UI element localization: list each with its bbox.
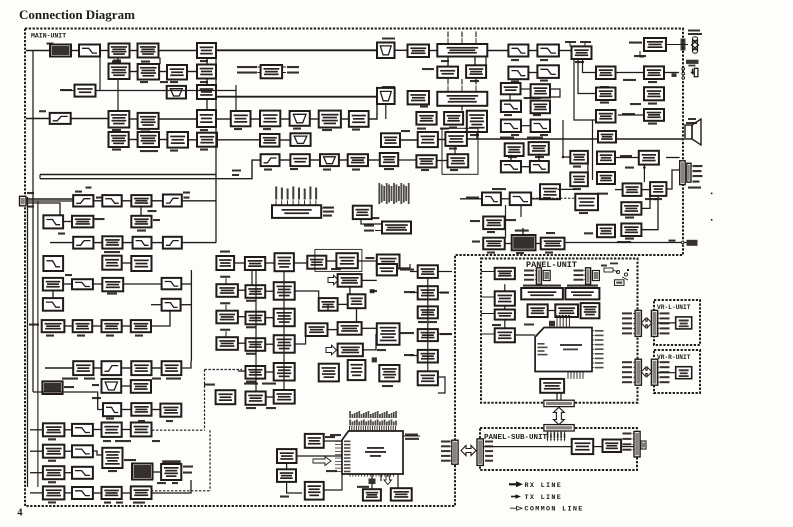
block DOUBLER	[348, 294, 366, 308]
wire	[410, 355, 418, 357]
block TX-A MIXER IF IX wide	[437, 92, 487, 106]
pin header CN IO pins	[276, 200, 316, 205]
label B TUNE CTRL	[237, 66, 257, 68]
wire	[535, 279, 536, 281]
wire	[99, 51, 101, 91]
caption thermal	[162, 460, 181, 463]
block ANT SW UNIT DRIVE	[102, 423, 122, 437]
label LPO	[172, 482, 178, 484]
connector SUB CN right	[634, 431, 640, 457]
wire	[461, 106, 463, 111]
block LPF 4A	[537, 65, 559, 78]
label pin text	[200, 129, 208, 131]
label TX PWR CTRL	[62, 378, 78, 380]
label TX PWR CTRL	[124, 459, 136, 461]
label pin text	[648, 123, 657, 125]
label pin text	[352, 169, 360, 171]
block RESET IC	[277, 449, 297, 463]
label EXT-SPXL	[325, 436, 335, 438]
wire vertical right of modem	[190, 270, 192, 361]
block CLIP AMP 1	[570, 151, 588, 164]
block LPF 6A	[482, 193, 501, 206]
wire	[369, 104, 377, 119]
wire	[235, 91, 237, 112]
wire	[358, 260, 377, 262]
block ATT I	[621, 224, 641, 237]
wire panel in 2	[481, 296, 495, 298]
label D-XXXXXX	[326, 470, 337, 472]
unit border MAIN-UNIT	[25, 29, 683, 507]
block NOISE SUPPRESS BUF	[261, 65, 283, 78]
wire	[64, 492, 72, 494]
enclosure clock generator	[315, 249, 362, 271]
unit border VR-R-UNIT	[654, 350, 700, 393]
label FAN	[688, 30, 700, 32]
enclosure AF block	[442, 128, 478, 174]
wire	[658, 372, 676, 374]
label xxx	[686, 122, 697, 124]
wire	[93, 429, 102, 431]
label pin	[441, 455, 451, 457]
label 455A	[440, 128, 449, 130]
wire	[559, 50, 572, 52]
arrow down mpu	[384, 476, 392, 485]
label VCO0	[220, 276, 230, 278]
wire	[234, 262, 245, 264]
block BPF F	[102, 379, 122, 393]
label pin text	[449, 127, 457, 129]
arrow to PLL B	[328, 275, 339, 284]
connector ANT	[20, 196, 27, 206]
label PRETOLINE	[688, 187, 701, 189]
block LPF F	[43, 256, 63, 271]
label pin text	[487, 231, 495, 233]
label Txxx	[77, 335, 85, 337]
label pin text	[112, 129, 121, 131]
block TRANSFER BUFF	[575, 194, 598, 210]
wire	[615, 189, 623, 191]
wire	[251, 118, 261, 120]
label pin text	[573, 166, 581, 168]
block TO-DET 3	[596, 110, 616, 123]
label pin text	[421, 169, 429, 171]
label CL	[472, 241, 480, 243]
wire	[328, 329, 338, 331]
block IF AMP A	[138, 44, 159, 58]
wire	[39, 175, 41, 179]
label Txxx	[232, 170, 241, 172]
wire	[93, 200, 102, 202]
wire	[206, 99, 208, 110]
wire	[30, 472, 43, 474]
wire	[474, 57, 476, 65]
wire	[64, 450, 72, 452]
wire	[129, 139, 138, 141]
block XTAL OSC MPU	[277, 469, 296, 482]
block DET A	[167, 65, 187, 80]
label pin	[622, 317, 632, 319]
block BUF M	[598, 131, 616, 143]
label xxx	[584, 232, 593, 234]
label pin text	[625, 238, 634, 240]
block BUF J	[597, 152, 615, 165]
connector SUB CN right b	[641, 441, 646, 449]
wire	[633, 361, 635, 363]
connector bar CN bottom	[544, 425, 574, 431]
wire	[140, 207, 142, 216]
wire	[341, 118, 349, 120]
block SUB REGULATOR	[603, 440, 622, 453]
wire	[658, 317, 659, 319]
block RELAY 3	[43, 466, 65, 479]
wire	[310, 159, 320, 161]
label LL PW	[422, 68, 434, 70]
wire	[531, 195, 540, 199]
label VCXTAL-B	[244, 383, 258, 385]
label pin	[660, 317, 670, 319]
label pin text	[170, 150, 178, 152]
wire	[505, 243, 512, 245]
wire	[225, 278, 227, 284]
wire	[371, 474, 373, 479]
block ACC AMP SENSITIVITY	[418, 329, 438, 341]
label LO-O/S	[323, 215, 332, 217]
label LXX	[153, 219, 160, 221]
arrow VR-L link	[641, 318, 651, 328]
wire	[658, 361, 659, 363]
wire panel in 3	[481, 313, 495, 315]
connector AT OUT	[680, 161, 686, 185]
block APC DETECTOR	[42, 381, 62, 394]
label EXT-SPKT	[622, 113, 635, 115]
wire	[403, 435, 420, 437]
legend COMMON LINE arrow	[510, 506, 522, 510]
wire	[153, 471, 161, 473]
wire	[30, 492, 43, 494]
block VCO-B RX OSC	[246, 312, 266, 325]
wire	[265, 262, 274, 264]
label VOX-A	[404, 291, 415, 293]
block LPF 3B	[501, 101, 521, 112]
icon mic sw	[601, 263, 629, 281]
wire	[327, 304, 329, 310]
label xxx/TONE-B	[524, 97, 541, 99]
block DE DIV	[245, 257, 265, 270]
wire	[152, 409, 161, 411]
label +FXXXL	[688, 33, 702, 35]
wire	[63, 283, 72, 285]
wire panel in 4	[481, 333, 495, 335]
wire	[206, 58, 208, 65]
label pin	[441, 450, 451, 452]
label AT-XXXX	[382, 38, 395, 40]
label pin	[485, 445, 493, 447]
block DET B	[231, 111, 251, 126]
label YGSV-A	[266, 407, 276, 409]
label xx 13.8V	[92, 397, 101, 399]
wire	[621, 446, 634, 448]
label pin	[660, 322, 670, 324]
wire	[265, 371, 274, 373]
wire	[362, 279, 377, 281]
wire	[666, 157, 680, 159]
wire	[188, 139, 197, 141]
wire	[633, 376, 635, 378]
wire	[438, 292, 448, 294]
block ATTEN G	[650, 182, 666, 196]
wire	[520, 205, 522, 217]
wire	[265, 343, 274, 345]
block FAN CONTROL	[644, 38, 666, 51]
block DIGITAL GATE TRANSFER	[495, 310, 515, 320]
label VCO1	[220, 302, 230, 304]
label pin text	[441, 60, 449, 62]
arrow VR-R link	[641, 367, 651, 377]
unit border PANEL-UNIT	[481, 259, 638, 403]
wire	[476, 132, 478, 139]
label pin	[485, 460, 493, 462]
block ATT F	[623, 183, 642, 196]
pin labels MPU interior left	[344, 441, 351, 443]
label pin text	[543, 197, 551, 199]
wire	[217, 139, 240, 141]
block LPF C	[102, 195, 121, 206]
wire	[437, 160, 448, 162]
wire	[633, 317, 635, 319]
wire	[641, 196, 650, 208]
block LPF B2	[537, 45, 559, 57]
wire	[584, 274, 585, 276]
block VCO-B TX LOOP	[274, 282, 295, 300]
wire dashed TX ctrl 1	[152, 429, 205, 431]
block HPF A	[50, 113, 71, 124]
wire	[287, 482, 302, 493]
wire	[251, 270, 253, 286]
block LPF B1	[508, 45, 528, 57]
wire	[151, 311, 170, 326]
wire	[538, 155, 540, 161]
block MIX D	[197, 110, 216, 127]
block BUF L	[597, 225, 615, 238]
wire	[123, 242, 133, 244]
pin header sub unit top pins	[548, 431, 565, 440]
label pin text	[540, 80, 548, 82]
wire long bus TX2	[40, 160, 261, 179]
wire	[368, 159, 380, 161]
block SUB RECEIVER RF AMP	[109, 111, 130, 128]
block LPF D	[43, 215, 63, 228]
block CLIP AMP 2	[570, 172, 588, 186]
wire	[633, 327, 635, 329]
label TUNE-B	[287, 66, 299, 68]
block AF AMP B	[290, 154, 309, 166]
wire panel in 1	[481, 271, 495, 273]
label pin text	[545, 252, 553, 254]
block VCO-B TX BUF	[216, 284, 238, 297]
wire long bus TX1	[40, 174, 216, 176]
connector CN P1b	[543, 271, 550, 281]
wire	[410, 292, 418, 294]
marker 2	[372, 357, 377, 362]
block REF DIV	[307, 256, 326, 269]
wire	[658, 366, 659, 368]
block LPF I	[43, 298, 63, 311]
junction dot 1	[562, 156, 565, 159]
label Tx	[183, 192, 190, 194]
wire	[640, 51, 644, 57]
wire	[93, 367, 101, 369]
label Txx xV	[546, 232, 555, 234]
block POWER MOSFET	[131, 361, 151, 375]
wire	[122, 325, 131, 327]
label PXXXX	[693, 170, 702, 172]
wire	[265, 290, 274, 292]
label RX SQL	[620, 155, 632, 157]
label pin	[441, 460, 451, 462]
block LOOP FILTER A	[275, 253, 294, 271]
block PANEL SW BUF	[495, 328, 515, 342]
label pin text	[170, 81, 178, 83]
wire	[93, 492, 102, 494]
label pin	[660, 376, 670, 378]
wire	[521, 166, 530, 168]
wire att to mix	[96, 85, 237, 91]
wire	[521, 88, 531, 90]
label pin text	[200, 149, 208, 151]
label Txx	[232, 174, 239, 176]
label TXB	[116, 502, 123, 504]
label d-SET	[645, 198, 657, 200]
block PREAMP BFR	[483, 217, 505, 230]
block WAVE REGULATOR	[363, 489, 381, 500]
wire	[280, 118, 289, 120]
svg-text:VR-R-UNIT: VR-R-UNIT	[657, 354, 691, 361]
wire	[356, 308, 358, 322]
block AMP B	[290, 111, 310, 126]
wire	[438, 271, 452, 273]
label RX	[27, 206, 34, 208]
icon ext sp jack	[682, 60, 699, 79]
label pin text	[141, 131, 150, 133]
label VCO-x	[246, 353, 256, 355]
wire	[375, 230, 382, 232]
block PANEL REGULATOR A	[495, 268, 515, 279]
wire vol drop 3	[583, 59, 597, 73]
label TX PWR CTRL	[133, 502, 145, 504]
wire	[122, 262, 132, 264]
wire	[152, 480, 192, 493]
wire	[117, 80, 119, 111]
block SQL B	[416, 155, 436, 167]
wire vol drop 2	[578, 59, 596, 94]
label pin text	[234, 128, 242, 130]
wire	[633, 449, 635, 451]
label pin text	[540, 59, 548, 61]
label pin text	[511, 59, 519, 61]
pin labels sub top	[547, 432, 549, 438]
label TUNE-A	[287, 72, 299, 74]
wire	[187, 71, 197, 73]
label Txx	[184, 197, 190, 199]
wire	[92, 325, 101, 327]
wire	[447, 57, 449, 67]
label A DRZ-IN	[634, 55, 646, 57]
block IF FILTER B	[138, 113, 159, 129]
block VCO SW	[274, 390, 295, 404]
label pin text	[470, 80, 479, 82]
block RELAY 4	[43, 486, 65, 499]
block VCO-B TX OSC	[246, 285, 266, 298]
wire to speaker	[467, 138, 683, 140]
block TO-DET 1	[596, 67, 616, 80]
label pin text	[470, 134, 479, 136]
wire	[282, 72, 286, 74]
label pin	[623, 449, 632, 451]
label Txx	[39, 110, 46, 112]
wire	[658, 322, 676, 324]
label MIC-A	[404, 354, 414, 356]
label SP	[688, 118, 696, 120]
label TXXF	[108, 470, 117, 472]
label 13.8V	[152, 378, 161, 380]
label Txxx	[166, 420, 173, 422]
wire	[398, 159, 416, 161]
label pin	[622, 376, 632, 378]
wire	[33, 391, 98, 394]
wire	[641, 196, 658, 230]
label BACKLIGHT	[405, 438, 419, 440]
wire	[238, 342, 246, 344]
label xx.xV	[280, 496, 289, 498]
block PANEL AMP	[495, 291, 515, 305]
label DATA-O/S	[323, 211, 334, 213]
block STEREO MOD	[540, 184, 560, 199]
wire	[321, 207, 333, 209]
block EXT AT AMP	[644, 66, 664, 79]
wire	[30, 450, 43, 452]
block BPF D	[163, 237, 182, 249]
block LPF E	[133, 237, 152, 249]
svg-text:MAIN-UNIT: MAIN-UNIT	[31, 33, 66, 40]
wire vertical trunk A	[215, 50, 217, 242]
marker 1	[370, 289, 375, 293]
wire	[633, 438, 635, 440]
label T2x	[48, 481, 56, 483]
label pin	[441, 441, 451, 443]
block FM DET	[260, 111, 280, 127]
wire	[182, 200, 216, 202]
label MCU-XX	[95, 218, 105, 220]
label ANT	[27, 192, 34, 194]
label AXX	[693, 181, 700, 183]
wire	[363, 334, 376, 350]
block AMP D	[320, 154, 339, 166]
label pin	[622, 361, 632, 363]
block ALC AMP SENSITIVITY	[418, 286, 438, 299]
block LPF L4	[72, 487, 93, 499]
block LCD DRIVER LED	[555, 304, 578, 317]
block PLL IC A	[338, 344, 363, 357]
label pin text	[600, 102, 609, 104]
block POWER PLACE	[131, 380, 151, 393]
svg-text:RX LINE: RX LINE	[525, 482, 563, 490]
wire	[310, 118, 319, 120]
wire vco chain 2	[283, 271, 285, 390]
wire	[295, 336, 306, 344]
wire	[123, 283, 161, 285]
wire	[550, 89, 560, 97]
label TXXF	[152, 440, 160, 442]
